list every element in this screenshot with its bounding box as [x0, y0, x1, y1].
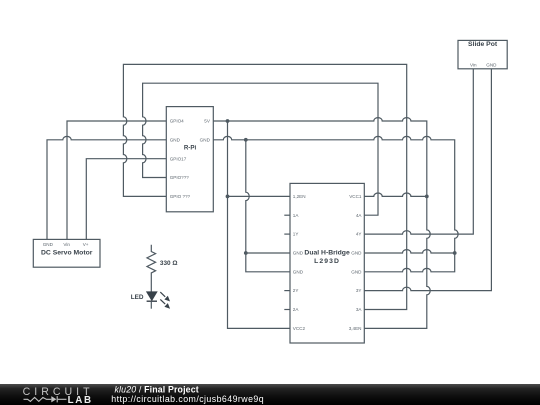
- svg-text:klu20 / Final Project: klu20 / Final Project: [115, 385, 199, 395]
- svg-text:2Y: 2Y: [293, 288, 299, 293]
- Slide Pot pin labels Vin GND: [470, 63, 497, 68]
- wire GND1-left pin: [246, 252, 290, 254]
- wire 1,2EN to 5V branch: [228, 195, 291, 197]
- svg-text:3A: 3A: [356, 307, 363, 312]
- svg-text:GND: GND: [486, 63, 497, 68]
- potentiometer Slide Pot box: [458, 40, 507, 68]
- node 5V junction: [226, 119, 230, 123]
- svg-text:LED: LED: [131, 294, 144, 301]
- svg-text:GPIO17: GPIO17: [170, 156, 187, 161]
- motor M1 DC Servo Motor box: [33, 239, 100, 267]
- svg-text:GPIO4: GPIO4: [170, 119, 184, 124]
- L293D pin labels 1,2EN 1A 1Y GND GND 2Y 2A VCC2 VCC1 4A 4Y GND GND 3Y 3A 3,4EN: [293, 194, 363, 331]
- svg-text:Vin: Vin: [63, 242, 70, 247]
- svg-text:http://circuitlab.com/cjusb649: http://circuitlab.com/cjusb649rwe9q: [111, 394, 264, 404]
- credit text: [111, 385, 264, 405]
- svg-text:GND: GND: [200, 137, 211, 142]
- svg-text:DC Servo Motor: DC Servo Motor: [41, 249, 93, 256]
- svg-text:Dual H-Bridge: Dual H-Bridge: [304, 249, 350, 256]
- pin stub 1A: [284, 214, 290, 216]
- wire 4Y to Slide Pot Vin (horiz hop over 406.7): [364, 69, 473, 234]
- svg-text:2A: 2A: [293, 307, 300, 312]
- wire GPIO17 to motor V+: [86, 159, 166, 240]
- wire 5V to VCC1/3,4EN (horiz hops over 378,406.7; vert hops at rows 234.1,290.6): [213, 118, 430, 329]
- svg-text:3,4EN: 3,4EN: [349, 326, 362, 331]
- node GND1-left junction: [244, 251, 248, 255]
- resistor R1 330 ohm: [147, 245, 156, 292]
- node GND1-right junction: [453, 251, 457, 255]
- svg-text:GND: GND: [293, 269, 304, 274]
- svg-text:5V: 5V: [204, 119, 211, 124]
- pin stub 2A: [284, 309, 290, 311]
- svg-text:VCC1: VCC1: [349, 194, 362, 199]
- wire GPIO4 to motor Vin: [67, 121, 166, 239]
- wire GND-right (horiz hops over 227.5,378,406.7,426.8; vert hop at row 234.1): [213, 136, 458, 271]
- wire GND branch to H-bridge left GNDs (vert hop at row 196.4): [246, 140, 290, 272]
- svg-text:1Y: 1Y: [293, 232, 299, 237]
- svg-text:330 Ω: 330 Ω: [160, 260, 178, 267]
- wire GPIO??? to 4A (vertical hops at rows 158.7,139.8,121): [143, 83, 378, 215]
- wire GPIO ??? to 3A (vertical hops at rows 158.7,139.8,121): [123, 64, 406, 309]
- LED D1: [147, 292, 170, 309]
- svg-text:L293D: L293D: [314, 258, 340, 265]
- svg-text:GPIO???: GPIO???: [170, 175, 190, 180]
- svg-text:VCC2: VCC2: [293, 326, 306, 331]
- pin stub 1Y: [284, 233, 290, 235]
- motor pin labels GND Vin V+: [43, 242, 89, 247]
- svg-text:LAB: LAB: [68, 395, 93, 405]
- IC U1 R-Pi box: [166, 107, 213, 212]
- svg-text:GND: GND: [43, 242, 54, 247]
- svg-text:GPIO ???: GPIO ???: [170, 194, 191, 199]
- CircuitLab logo: [23, 386, 94, 405]
- node VCC1 junction: [425, 195, 429, 199]
- node junction dots: [226, 119, 457, 255]
- LED arrows: [160, 292, 169, 308]
- node 1,2EN junction: [226, 195, 230, 199]
- svg-text:V+: V+: [83, 242, 89, 247]
- svg-text:R-Pi: R-Pi: [184, 144, 197, 151]
- wire VCC1 (horiz hops over 378,406.7): [364, 193, 427, 196]
- svg-text:GND: GND: [351, 269, 362, 274]
- svg-text:Slide Pot: Slide Pot: [468, 41, 498, 48]
- IC U2 Dual H-Bridge L293D box: [290, 183, 364, 343]
- svg-text:GND: GND: [351, 251, 362, 256]
- node GND junction: [244, 138, 248, 142]
- wire 3Y to Slide Pot GND (horiz hop over 406.7): [364, 69, 491, 291]
- svg-text:4Y: 4Y: [356, 232, 362, 237]
- svg-text:1A: 1A: [293, 213, 300, 218]
- svg-text:GND: GND: [170, 137, 181, 142]
- svg-text:GND: GND: [293, 251, 304, 256]
- svg-text:1,2EN: 1,2EN: [293, 194, 306, 199]
- logo squiggle: resistor + diode: [24, 396, 67, 402]
- wire 5V branch to VCC2: [228, 121, 291, 328]
- svg-text:3Y: 3Y: [356, 288, 362, 293]
- wire GND1-right (horiz hops over 406.7,426.8): [364, 250, 454, 253]
- svg-text:4A: 4A: [356, 213, 363, 218]
- R-Pi pin labels GPIO4 GND GPIO17 GPIO??? GPIO??? 5V GND: [170, 119, 211, 199]
- wire GND-left to motor GND (hops over x=67): [47, 136, 166, 239]
- pin stub 2Y: [284, 290, 290, 292]
- svg-text:Vin: Vin: [470, 63, 477, 68]
